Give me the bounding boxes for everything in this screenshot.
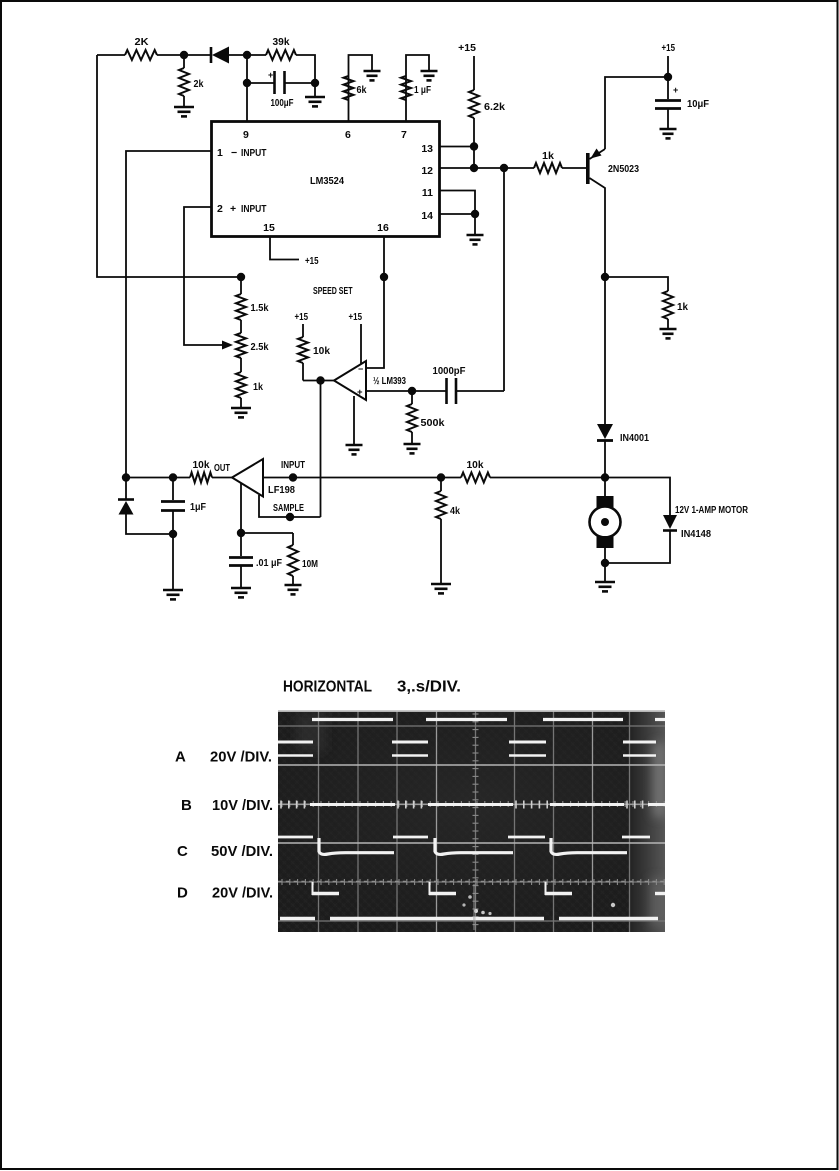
svg-text:.01 μF: .01 μF [256,558,282,569]
resistor R2 2k vertical [183,55,185,68]
ground under 4k [431,583,451,586]
resistor R4 6k with ground [349,55,373,121]
transistor Q1 emitter lead with arrow [590,149,606,159]
node at 500k [408,387,416,395]
svg-text:+15: +15 [458,42,476,54]
wire left rail from 2K down to SPEED SET rail [97,54,125,56]
diode CR3 clamp [125,478,127,500]
svg-text:20V /DIV.: 20V /DIV. [212,885,273,902]
svg-text:2k: 2k [194,78,204,90]
svg-text:13: 13 [421,143,433,155]
node pin 12 junction at 6.2k [470,164,478,172]
svg-text:−: − [231,147,237,159]
svg-text:11: 11 [422,187,433,199]
wire comparator output down to SAMPLE line [320,381,322,518]
svg-text:100μF: 100μF [271,97,294,109]
wire +15 to cap node [667,56,669,99]
resistor R10 1k base [534,163,562,173]
wire INPUT rail [263,477,461,479]
resistor R7 1k lower [240,358,242,372]
wire pin 11 to pin 14 then ground [440,191,475,215]
resistor-style element 1uF at pin 7 with ground [406,55,429,121]
svg-text:HORIZONTAL: HORIZONTAL [283,679,372,696]
svg-text:50V /DIV.: 50V /DIV. [211,843,273,860]
svg-text:6k: 6k [357,84,367,96]
resistor R8 10k pullup [302,324,304,337]
arrowhead at pot wiper [222,341,233,350]
trace C main segments [319,838,394,854]
wire +15 supply into comparator [360,324,362,364]
SAMPLE loop wire [259,495,321,517]
wire collector node to 1k load [605,277,668,291]
node junction diode-39k [243,51,251,59]
scope graticule center ticks [281,801,283,807]
svg-text:+15: +15 [305,255,319,267]
wire minus input up to speed-set rail [366,277,384,368]
resistor R16 6.2k [473,56,475,90]
diode CR4 IN4148 [663,515,677,529]
node rail at motor [601,473,609,481]
node under 1uF [169,530,177,538]
ground under .01uF [231,587,251,590]
svg-text:+15: +15 [349,311,363,323]
diode CR1 pointing left [184,54,211,56]
wire pin 12 rail to base resistor [440,167,534,169]
svg-text:+: + [268,70,273,80]
node speed set right [380,273,388,281]
node at 10uF [664,73,672,81]
potentiometer R6 2.5k [240,320,242,333]
transistor Q1 2N5023 base bar [586,153,590,184]
wire plus input to 500k node and 1000pF [366,390,446,392]
trace D baseline dotted [278,881,281,883]
photo artifacts near center [474,909,478,913]
svg-text:A: A [175,749,186,766]
ground under 10M [285,584,302,587]
svg-text:+15: +15 [662,42,676,54]
capacitor C4 1uF hold [172,478,174,501]
svg-text:B: B [181,797,192,814]
ground under comparator [346,444,363,447]
node on INPUT rail [289,473,297,481]
svg-text:9: 9 [243,129,249,141]
wire pin 15 to +15 stub [270,237,299,260]
wire pin 1 to left rail down to hold section [126,151,211,478]
svg-text:7: 7 [401,129,407,141]
motor M1 bottom brush [597,536,614,548]
svg-text:INPUT: INPUT [241,147,267,159]
svg-text:D: D [177,885,188,902]
node comparator output [316,376,324,384]
svg-text:2N5023: 2N5023 [608,163,639,175]
svg-text:16: 16 [377,222,389,234]
svg-text:SPEED SET: SPEED SET [313,285,353,297]
node pin 13 junction [470,142,478,150]
svg-text:10M: 10M [302,558,318,570]
svg-text:C: C [177,843,188,860]
svg-text:+: + [357,387,363,398]
capacitor C3 10uF electrolytic [655,99,681,102]
ground under pot chain [231,407,251,410]
trace A low double lines [278,741,313,744]
svg-text:10k: 10k [467,459,484,471]
wire 10k to op-amp output node [303,380,334,382]
capacitor C5 .01uF [240,533,242,556]
node rail left at diode [122,473,130,481]
svg-text:3,.s/DIV.: 3,.s/DIV. [397,679,461,696]
svg-text:10V /DIV.: 10V /DIV. [212,797,273,814]
ground under motor [604,563,606,582]
wire pin 16 down to speed-set rail [383,237,385,277]
svg-text:1: 1 [217,147,223,159]
svg-text:1k: 1k [253,381,263,393]
svg-text:½ LM393: ½ LM393 [373,376,406,387]
svg-text:1k: 1k [677,301,688,313]
node junction 100uF left / pin 9 lead [243,79,251,87]
wire 504 column from pin 12 rail down to 1000pF [503,168,505,391]
scope graticule vertical lines [318,710,320,932]
node on SAMPLE line [286,513,294,521]
ground under 500k [404,443,421,446]
wire to 10M [241,532,293,534]
svg-text:10k: 10k [313,345,330,357]
svg-text:6: 6 [345,129,351,141]
ground under 10uF [660,128,677,131]
resistor R14 4k [440,478,442,492]
svg-text:−: − [358,364,363,374]
svg-text:1000pF: 1000pF [433,365,467,377]
resistor R11 1k load [663,291,673,319]
svg-text:INPUT: INPUT [281,459,305,471]
capacitor C1 100uF electrolytic [247,82,274,84]
svg-text:20V /DIV.: 20V /DIV. [210,749,272,766]
svg-text:IN4148: IN4148 [681,528,711,540]
wire pin 13 to 6.2k column [440,146,474,148]
node pin 12 junction at 504 column [500,164,508,172]
wire rail to 10k [126,477,190,479]
capacitor C2 1000pF [445,378,448,404]
resistor R3 39k [247,54,266,56]
wire collector down to IN4001 [604,277,606,424]
svg-text:39k: 39k [273,36,290,48]
node at 4k [437,473,445,481]
svg-text:15: 15 [263,222,275,234]
svg-text:1μF: 1μF [190,501,206,513]
wire rail to IN4148 branch [605,478,670,516]
wire comparator V- to ground [353,396,355,445]
ground under R2 [174,106,194,109]
svg-text:14: 14 [421,210,433,222]
resistor R12 10k output [190,473,212,483]
wire pin 2 to pot wiper with arrow [184,207,226,345]
svg-text:LF198: LF198 [268,484,295,496]
svg-text:6.2k: 6.2k [484,101,505,113]
trace B bright segments [310,803,395,806]
transistor Q1 collector lead [590,178,606,277]
svg-text:+: + [230,203,236,215]
svg-text:10μF: 10μF [687,98,710,110]
svg-text:1k: 1k [542,150,554,162]
svg-text:INPUT: INPUT [241,203,267,215]
photo top bright strip [278,710,665,712]
ground right of 1uF [421,70,438,73]
svg-text:12: 12 [421,165,433,177]
node junction 100uF right [311,79,319,87]
resistor R15 10k rail [461,473,490,483]
node motor bottom [601,559,609,567]
ground under 100uF right node [314,83,316,97]
svg-text:4k: 4k [450,505,460,517]
svg-text:2.5k: 2.5k [251,341,269,353]
svg-text:+: + [673,85,678,95]
ground under 1k load [660,328,677,331]
IC U1 LM3524 body [212,122,440,237]
motor M1 top brush [604,478,606,498]
svg-text:2: 2 [217,203,223,215]
svg-text:1.5k: 1.5k [251,302,269,314]
scope graticule horizontal lines [278,725,665,727]
svg-text:OUT: OUT [214,462,230,474]
svg-text:1 μF: 1 μF [414,84,431,96]
node hold cap junction [237,529,245,537]
oscilloscope photograph background [278,710,665,932]
svg-text:12V 1-AMP MOTOR: 12V 1-AMP MOTOR [675,505,749,516]
trace bottom segments [280,917,315,920]
svg-text:+15: +15 [295,311,309,323]
svg-text:500k: 500k [421,417,445,429]
svg-text:SAMPLE: SAMPLE [273,502,304,514]
svg-text:10k: 10k [193,459,210,471]
node junction at 2k top [180,51,188,59]
resistor R1 2K [125,50,157,60]
op-amp U2 half LM393 triangle [334,361,366,400]
diode CR2 IN4001 [597,424,613,439]
svg-text:IN4001: IN4001 [620,432,649,444]
wire hold-cap pin down [240,483,242,533]
ground right of 6k [364,70,381,73]
node pin 14 junction [471,210,479,218]
svg-text:LM3524: LM3524 [310,175,344,187]
motor M1 body [590,507,621,538]
node speed set at pot [237,273,245,281]
ground under 1uF [163,589,183,592]
trace D bright dashes [312,892,339,895]
resistor R5 1.5k [240,277,242,294]
node collector junction [601,273,609,281]
trace A high segments [312,718,393,721]
svg-text:2K: 2K [135,36,149,48]
op-amp U3 LF198 triangle [232,459,263,497]
node rail at 1uF [169,473,177,481]
resistor R13 10M [292,533,294,545]
ground under pins 11/14 [474,214,476,235]
resistor R9 500k [411,391,413,404]
trace C high segments [278,836,313,839]
